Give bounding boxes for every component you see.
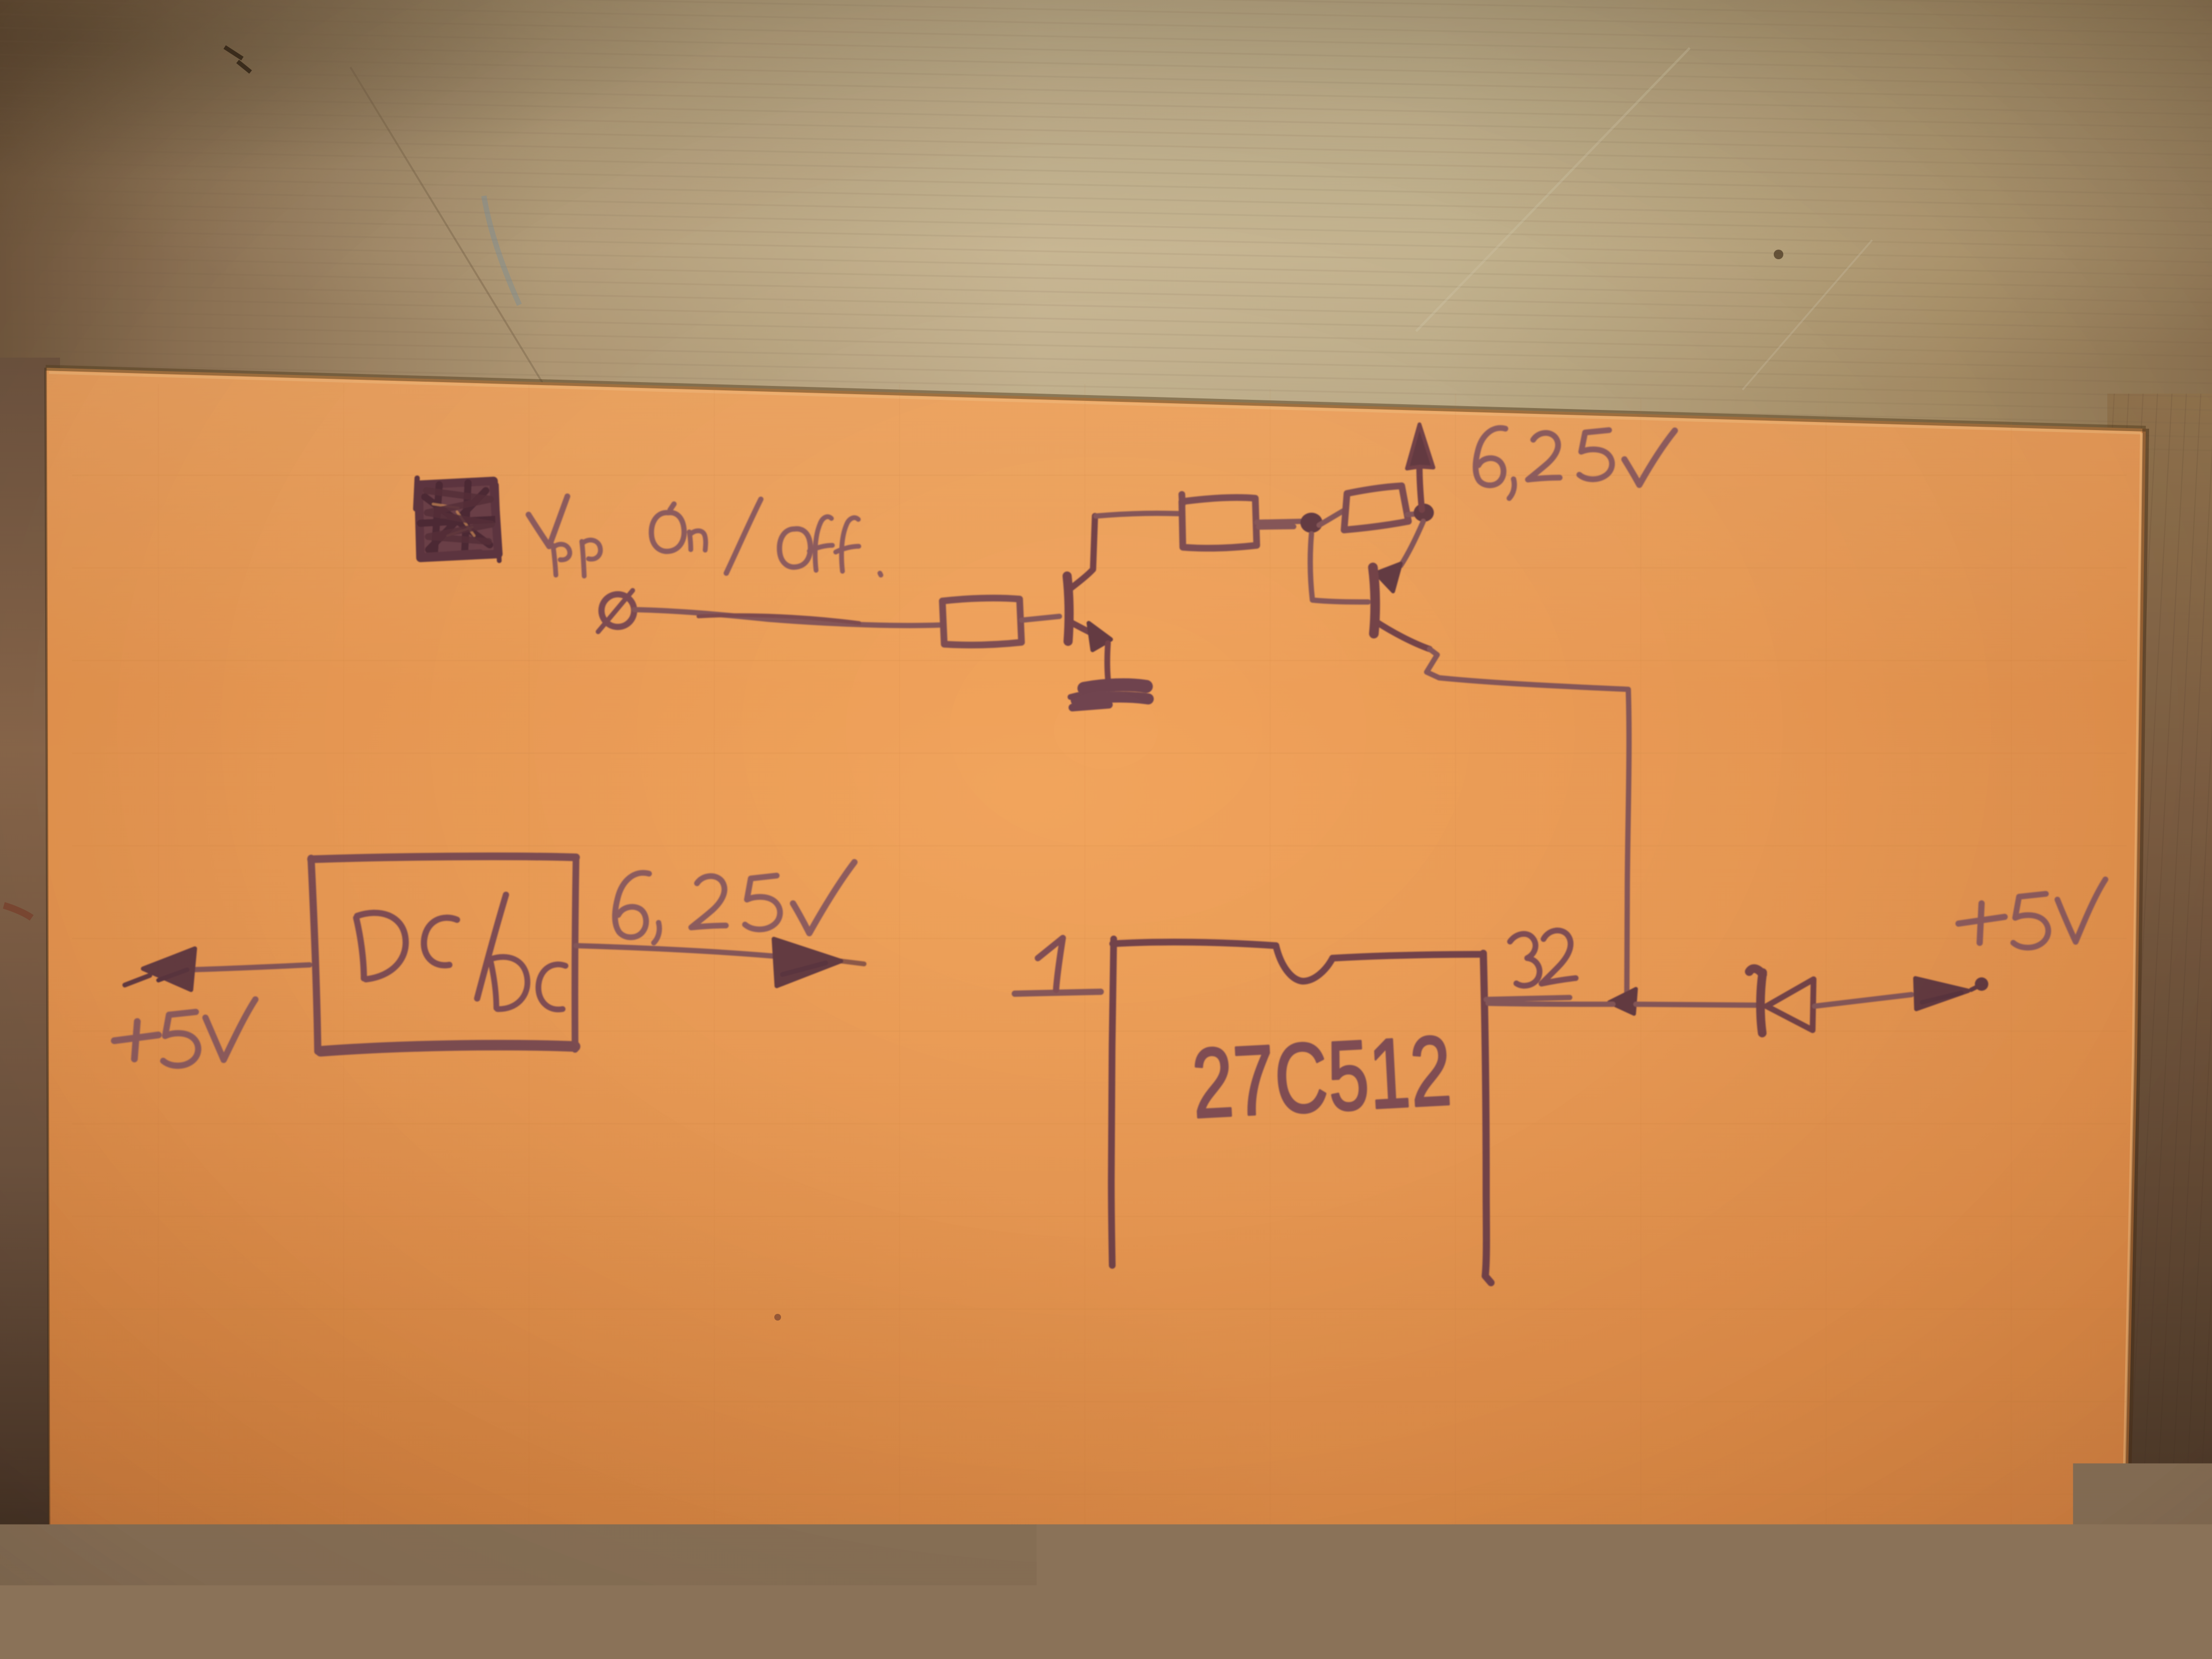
Q2 collector lead bbox=[1377, 622, 1430, 649]
label +5V (right) bbox=[1959, 879, 2105, 948]
wire DC/DC output (to right) bbox=[576, 946, 775, 956]
wire node N1 to Q2 emitter bbox=[1401, 521, 1423, 565]
IC pin 1 stub bbox=[1015, 992, 1101, 994]
label 6,25V output bbox=[615, 862, 854, 943]
arrow 6.25V output bbox=[774, 939, 864, 986]
transistor Q2 base bar bbox=[1373, 567, 1375, 634]
diode D1 (cathode left) bbox=[1749, 969, 1814, 1033]
power arrow 6.25V (up) bbox=[1407, 424, 1433, 510]
label pin 1 bbox=[1038, 938, 1063, 990]
resistor R2 bbox=[1182, 494, 1257, 548]
paper edge highlights bbox=[49, 373, 2141, 433]
resistor R3 bbox=[1344, 486, 1408, 530]
wire R2 to junction J1 bbox=[1257, 521, 1302, 527]
arrow +5V input (left) bbox=[125, 949, 195, 990]
DC/DC converter U2 box bbox=[311, 856, 576, 1051]
label DC/DC bbox=[356, 895, 565, 1010]
tiny speck on paper bbox=[774, 1314, 781, 1321]
resistor R1 bbox=[942, 598, 1022, 645]
EPROM U1 27C512 outline bbox=[1111, 939, 1491, 1283]
wire terminal to R1 bbox=[634, 610, 940, 625]
wire DC/DC input (to left) bbox=[192, 965, 310, 970]
input terminal node (circle with slash) bbox=[598, 590, 634, 632]
wire R3 to node N1 bbox=[1407, 514, 1420, 515]
wood desk right sliver bbox=[2107, 394, 2212, 1659]
wire Q1 collector to R2 bbox=[1096, 513, 1178, 516]
wood desk left sliver bbox=[0, 358, 60, 1659]
wire J1 down to Q2 base bbox=[1310, 534, 1368, 602]
pin 32 stub wire to node bbox=[1486, 998, 1613, 1004]
pushbutton S1 scribble symbol bbox=[416, 478, 499, 561]
junction arrow at pin32 node bbox=[1609, 989, 1636, 1014]
wire diode to +5V arrow bbox=[1815, 995, 1911, 1006]
wire node to diode D1 bbox=[1636, 1004, 1756, 1005]
orange paper note bbox=[46, 368, 2146, 1659]
transistor Q2 (PNP) emitter arrow bbox=[1376, 564, 1401, 591]
ground symbol bbox=[1070, 685, 1148, 708]
wood desk background (top band) bbox=[0, 0, 2212, 470]
paper edge shadow lines bbox=[46, 368, 2146, 429]
transistor Q1 (NPN) bbox=[1067, 516, 1111, 684]
faint squared-paper grid bbox=[72, 384, 2127, 1659]
label +5V (left) bbox=[114, 999, 255, 1066]
wire R1 to Q1 base bbox=[1022, 616, 1059, 620]
label 6,25 check (top) bbox=[1476, 428, 1675, 498]
faint pencil squiggle bottom bbox=[818, 1609, 1039, 1633]
label pin 32 bbox=[1509, 929, 1576, 987]
wire J1 to R3 bbox=[1319, 510, 1345, 525]
junction node J1 bbox=[1300, 513, 1322, 533]
node N1 at 6.25V arrow bbox=[1414, 504, 1434, 522]
wood scratch marks bbox=[350, 67, 552, 398]
arrow to +5V (right) bbox=[1915, 977, 1988, 1009]
wire Q2 to pin32 node (down right) bbox=[1427, 649, 1629, 993]
label Vpp On/Off bbox=[529, 496, 881, 576]
